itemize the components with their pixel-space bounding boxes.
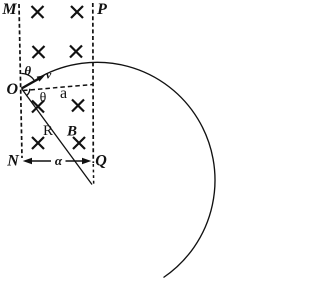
field cross row1 col2 <box>71 6 83 18</box>
arrowhead left toward N <box>23 158 32 165</box>
field cross row2 col1 <box>33 46 45 58</box>
wire dotted extension below Q <box>92 164 94 185</box>
svg-text:B: B <box>66 123 77 139</box>
circular particle path arc <box>41 62 215 277</box>
svg-text:R: R <box>43 123 53 139</box>
arrowhead right toward Q <box>82 158 91 165</box>
svg-text:θ: θ <box>40 91 47 106</box>
wire right dashed boundary PQ <box>92 3 95 163</box>
svg-text:θ: θ <box>24 63 31 78</box>
svg-text:α: α <box>55 153 63 168</box>
svg-text:Q: Q <box>95 153 107 170</box>
velocity arrow v shaft <box>22 79 40 89</box>
dimension double arrow alpha shaft right <box>66 160 85 162</box>
field cross row3 col1 <box>32 101 44 113</box>
svg-text:N: N <box>6 153 20 170</box>
velocity arrowhead <box>37 75 45 81</box>
dimension double arrow alpha shaft left <box>31 160 52 162</box>
field cross row1 col1 <box>32 6 44 18</box>
svg-text:P: P <box>96 1 107 18</box>
angle arc theta lower at O <box>26 89 30 96</box>
field cross row4 col2 <box>73 137 85 149</box>
angle arc theta upper at O <box>21 73 34 81</box>
radius line R from O to circle centre <box>22 89 93 185</box>
svg-text:O: O <box>7 81 19 98</box>
field cross row2 col2 <box>70 46 82 58</box>
svg-text:a: a <box>60 85 67 102</box>
wire left dashed boundary MN <box>19 4 22 158</box>
field cross row3 col2 <box>72 100 84 112</box>
wire horizontal dashed width line a <box>23 85 93 91</box>
svg-text:M: M <box>1 1 17 18</box>
field cross row4 col1 <box>32 137 44 149</box>
